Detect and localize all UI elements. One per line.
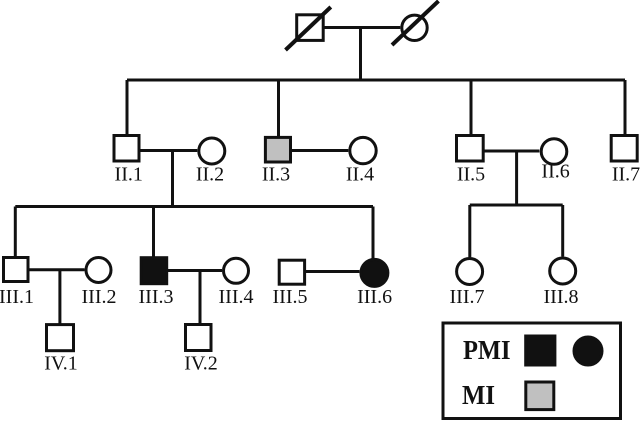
svg-text:MI: MI [462, 380, 495, 410]
wire couple line I.1-I.2 [325, 26, 401, 29]
svg-text:III.6: III.6 [357, 286, 392, 308]
svg-text:III.7: III.7 [450, 286, 485, 308]
wire drop to III.8 [561, 205, 564, 257]
wire drop to II.3 [277, 80, 280, 136]
wire drop to III.6 [372, 207, 375, 259]
wire drop to II.7 [624, 80, 627, 134]
wire drop to II.1 [126, 80, 129, 134]
svg-text:III.1: III.1 [0, 286, 34, 308]
individual III.4 female circle [224, 258, 249, 283]
individual III.7 female circle [457, 259, 483, 285]
individual II.2 female circle [199, 138, 225, 164]
individual III.5 male square [279, 260, 304, 284]
wire couple line II.1-II.2 [141, 149, 198, 152]
individual IV.1 male square [47, 325, 74, 351]
wire drop to III.1 [14, 207, 17, 257]
svg-text:II.7: II.7 [612, 164, 640, 186]
wire sibship line children of II.1 [15, 205, 373, 208]
wire sibship line generation II [127, 79, 625, 82]
individual II.6 female circle [541, 139, 567, 165]
wire drop to III.3 [152, 207, 155, 258]
wire drop to II.5 [470, 80, 473, 134]
svg-text:IV.2: IV.2 [184, 352, 218, 374]
wire couple line III.1-III.2 [30, 268, 85, 271]
svg-text:III.2: III.2 [82, 286, 117, 308]
individual III.6 affected PMI female circle black [361, 259, 388, 286]
slash over I.2 [392, 1, 439, 45]
svg-text:III.8: III.8 [544, 286, 579, 308]
wire couple line II.5-II.6 [485, 150, 540, 153]
individual I.2 deceased female circle [402, 15, 427, 40]
individual II.1 male square [114, 136, 139, 162]
wire couple line III.5-III.6 [306, 270, 359, 273]
wire descent drop from couple I [359, 28, 362, 81]
svg-text:II.3: II.3 [262, 164, 290, 186]
individual III.1 male square [4, 258, 29, 282]
wire couple line III.3-III.4 [168, 269, 223, 272]
svg-text:III.5: III.5 [273, 286, 308, 308]
svg-text:II.4: II.4 [346, 164, 374, 186]
legend PMI black square [526, 336, 555, 365]
slash over I.1 [286, 7, 331, 50]
individual II.3 affected MI male square gray [265, 137, 290, 162]
individual II.5 male square [457, 136, 484, 162]
legend MI gray square [526, 382, 554, 410]
svg-text:II.5: II.5 [457, 164, 485, 186]
individual II.4 female circle [350, 137, 376, 163]
wire couple line II.3-II.4 [292, 149, 348, 152]
svg-text:IV.1: IV.1 [44, 352, 78, 374]
wire drop from couple II.1xII.2 [171, 151, 174, 207]
svg-text:III.3: III.3 [139, 286, 174, 308]
svg-text:II.2: II.2 [196, 164, 224, 186]
wire drop to IV.2 [199, 271, 202, 326]
svg-text:III.4: III.4 [219, 286, 254, 308]
legend box [443, 323, 621, 419]
svg-text:PMI: PMI [463, 335, 511, 365]
individual III.8 female circle [550, 258, 576, 284]
wire drop to III.7 [468, 205, 471, 257]
wire drop to IV.1 [58, 270, 61, 326]
wire drop from couple II.5xII.6 [515, 151, 518, 205]
individual III.3 affected PMI male square black [141, 258, 167, 284]
individual II.7 male square [611, 136, 637, 162]
individual I.1 deceased male square [297, 15, 324, 41]
wire sibship line children of II.5 [470, 204, 563, 207]
svg-text:II.1: II.1 [115, 164, 143, 186]
svg-text:II.6: II.6 [541, 161, 569, 183]
individual IV.2 male square [186, 325, 212, 351]
legend PMI black circle [574, 337, 602, 365]
individual III.2 female circle [86, 258, 111, 283]
